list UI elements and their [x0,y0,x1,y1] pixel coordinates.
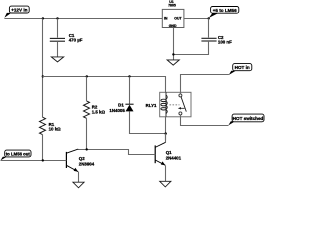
wire Q1 emitter to ground [165,165,167,181]
wire HOT switched [181,117,229,126]
node junction rail / R2 [86,75,88,77]
ground under Q2 [73,182,84,188]
svg-text:D1: D1 [118,103,124,108]
wire D1 cathode to rail [129,77,131,104]
flag HOT in [229,64,252,75]
transistor Q1 2N4401 [155,142,181,165]
transistor Q2 2N3904 [66,149,94,172]
node junction +5 / C2 [208,17,210,19]
node junction top rail / R1 branch [42,17,44,19]
capacitor C2 [201,35,232,44]
node junction GND net [172,53,174,55]
wire U1 GND stem [173,28,175,60]
svg-text:to LM56 out: to LM56 out [6,152,31,157]
svg-text:HOT switched: HOT switched [233,116,264,121]
wire C1 to ground [57,41,59,57]
wire C2 bottom to ground net [174,41,209,55]
relay blade arrow [180,107,185,109]
ground under Q1 [160,181,171,187]
node junction 12V rail to relay rail [42,75,44,77]
relay RLY1 [146,92,191,117]
svg-text:1.5 kΩ: 1.5 kΩ [92,110,106,115]
flag to LM56 out [1,150,32,160]
relay actuation dashed link [170,104,180,106]
svg-text:Q2: Q2 [79,156,85,161]
relay contact top [179,94,182,97]
wire HOT in [181,75,229,93]
svg-text:10 kΩ: 10 kΩ [49,126,62,131]
relay blade [181,97,186,112]
node junction R2 / Q2 collector / Q1 base [86,148,88,150]
resistor R2 [84,101,106,118]
wire Q2 collector to Q1 base [78,150,155,155]
capacitor C1 [50,33,83,42]
node junction top rail / C1 branch [56,17,58,19]
wire LM56 out to Q2 base [1,160,67,162]
svg-text:IN: IN [164,16,168,20]
wire U1 OUT to +5 flag [184,18,209,20]
relay pin stubs [180,92,182,94]
flag +12V in [4,6,29,18]
voltage regulator U1 7805 [162,0,184,28]
node junction rail / D1 [128,75,130,77]
flag +5 to LM56 [209,7,239,18]
ground under U1 [167,60,179,65]
svg-text:100 nF: 100 nF [218,40,232,45]
ground under C1 [51,57,63,62]
node junction R1 / base wire [42,159,44,161]
wire left rail x=42.7 top segment [42,19,44,118]
wire D1 anode to coil bottom node [130,111,166,133]
svg-text:+5 to LM56: +5 to LM56 [213,8,237,13]
svg-text:Q1: Q1 [166,150,172,155]
wire R2 bottom [86,118,88,149]
wire 12V horizontal rail to relay coil [43,77,166,93]
wire Q2 emitter to ground [78,172,80,183]
node junction coil / D1 / Q1 collector [165,132,167,134]
svg-text:7805: 7805 [168,4,176,8]
resistor R1 [40,117,62,134]
svg-text:GND: GND [169,24,177,28]
relay contact bottom [179,112,182,115]
svg-text:RLY1: RLY1 [146,103,157,108]
svg-text:HOT in: HOT in [235,65,250,70]
svg-text:2N3904: 2N3904 [79,161,95,166]
svg-text:+12V in: +12V in [11,8,27,13]
wire C2 branch [208,19,210,38]
svg-text:2N4401: 2N4401 [166,155,182,160]
flag HOT switched [228,114,264,125]
wire relay coil bottom to node [165,117,167,140]
diode D1 1N4005 [109,103,133,114]
wire R1 bottom to base wire [42,135,44,161]
wire +12V top rail [4,18,162,20]
wire Q1 collector vertical [165,134,167,143]
relay coil [165,92,167,117]
wire C1 branch [57,19,59,38]
wire R2 top [86,77,88,101]
svg-text:470 µF: 470 µF [69,37,83,42]
svg-text:OUT: OUT [174,16,182,20]
svg-text:1N4005: 1N4005 [109,108,125,113]
